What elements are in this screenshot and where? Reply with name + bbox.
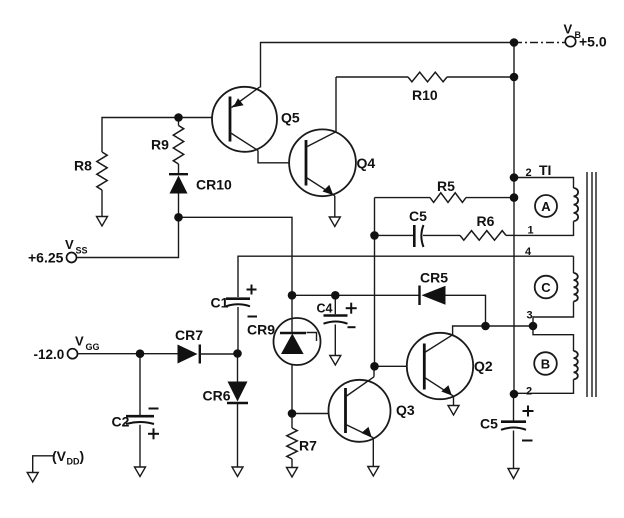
wire C2 bottom lead [139, 425, 141, 467]
wire Q2 emitter lead [453, 396, 455, 405]
svg-text:V: V [564, 22, 573, 37]
transistor Q3 (NPN) [329, 377, 391, 442]
svg-text:3: 3 [527, 310, 533, 322]
wire R10 left lead [336, 76, 408, 78]
wire left column x374 (R5 corner down through C5 node to Q2/Q3 node) [374, 198, 376, 367]
wire CR5 anode right then down to Q2 collector node [446, 295, 486, 326]
wire R8 bottom lead [101, 190, 103, 217]
node CR10/V_SS junction [174, 213, 183, 222]
svg-text:R8: R8 [74, 158, 92, 174]
wire node to R7 [291, 414, 293, 429]
svg-text:CR10: CR10 [196, 177, 232, 193]
svg-text:TI: TI [539, 162, 551, 178]
capacitor C5 (coupling, top) [414, 225, 423, 247]
svg-text:(V: (V [52, 448, 67, 464]
wire C4 top stub [334, 295, 336, 314]
resistor R10 [408, 72, 447, 82]
wire top net: Q5 emitter up and across to V_B bus node [261, 43, 515, 88]
wire R9 top lead [178, 118, 180, 126]
wire Q3 collector up to node [373, 366, 375, 377]
wire stub from bus node to V_B terminal (dash-dot) [514, 42, 566, 44]
wire winding C bottom to pin 3 node [533, 301, 574, 326]
node R5/bus junction [510, 193, 519, 202]
wire C5 left lead [375, 234, 414, 236]
svg-text:A: A [541, 199, 551, 214]
svg-text:+6.25: +6.25 [28, 250, 64, 266]
transistor Q4 (NPN) [289, 129, 356, 196]
svg-text:R9: R9 [151, 137, 169, 153]
wire winding A bottom to pin 1 [514, 221, 574, 235]
svg-text:C2: C2 [112, 414, 130, 430]
wire CR6 to ground [237, 403, 239, 467]
wire bus to C5 top plate [513, 394, 515, 421]
svg-text:C: C [541, 280, 551, 295]
wire C5 right lead to R6 [423, 234, 460, 236]
ground under C2 [135, 467, 146, 477]
wire Q4 collector up to R10 line [335, 77, 337, 132]
terminal V_GG [68, 349, 78, 359]
winding C coil [574, 273, 578, 301]
node R9/R8/Q5 base junction [174, 113, 183, 122]
svg-text:R6: R6 [477, 213, 495, 229]
svg-text:Q2: Q2 [474, 358, 493, 374]
node T1 pin2 top junction [510, 173, 519, 182]
winding B coil [574, 351, 578, 379]
diode CR7 (points right) [178, 345, 200, 364]
winding C label circle [535, 276, 558, 299]
plus sign C5 [523, 406, 534, 417]
wire winding C top from pin-4 line [573, 256, 575, 273]
node C2/V_GG junction [136, 349, 145, 358]
wire pin 2 to winding A top [514, 178, 574, 189]
svg-text:CR5: CR5 [420, 270, 448, 286]
plus sign C4 [346, 303, 357, 314]
svg-text:C5: C5 [409, 208, 427, 224]
diode CR10 (cathode bar up) [169, 174, 188, 193]
svg-text:CR9: CR9 [247, 322, 275, 338]
wire CR10 anode to node [178, 194, 180, 218]
wire winding B bottom to pin 2 node [514, 379, 574, 393]
wire Q4 emitter lead [334, 196, 336, 217]
svg-text:C4: C4 [317, 302, 333, 316]
svg-text:CR7: CR7 [175, 327, 203, 343]
ground under C4 [330, 356, 341, 366]
svg-text:C5: C5 [480, 416, 498, 432]
capacitor C1 [226, 299, 250, 307]
diode CR9 (circled, cathode bar up, with hook) [274, 318, 321, 365]
node R10/bus junction [510, 73, 519, 82]
svg-text:Q5: Q5 [281, 110, 300, 126]
wire node down to CR9 top [291, 295, 293, 318]
node C5/R5 left junction [370, 231, 379, 240]
wire Q3 base from CR9 node [292, 413, 329, 415]
capacitor C4 [324, 316, 348, 324]
wire V_DD stub [33, 456, 53, 473]
diode CR5 (points left) [420, 286, 446, 306]
wire R5 right lead to bus [466, 197, 514, 199]
transistor Q5 (PNP) [212, 87, 277, 152]
wire C2 top lead [139, 354, 141, 415]
wire node to pin 3 node [486, 325, 534, 327]
minus sign C5 [522, 440, 533, 442]
transformer core lines [587, 172, 596, 397]
wire pin 3 node to winding B top [533, 326, 574, 351]
wire R6 right lead to bus / pin 1 [506, 234, 514, 236]
node CR7/CR6/C1 junction [233, 349, 242, 358]
plus sign C1 [247, 285, 257, 295]
wire Q5 collector to Q4 base [258, 151, 289, 163]
svg-text:R7: R7 [299, 438, 317, 454]
capacitor C5 (output electrolytic) [501, 422, 526, 430]
wire Q3 emitter lead [372, 438, 374, 467]
node CR5/Q2 collector junction [481, 322, 490, 331]
resistor R6 [460, 231, 506, 241]
resistor R8 [97, 152, 107, 190]
wire V_GG to CR7 anode [78, 353, 178, 355]
node CR9/R7/Q3 base junction [288, 409, 297, 418]
ground under R8 [97, 217, 108, 227]
resistor R9 [173, 126, 183, 165]
winding A coil [574, 188, 579, 221]
svg-text:): ) [80, 448, 85, 464]
wire R8 top / Q5 base wire [102, 118, 213, 153]
svg-text:1: 1 [528, 225, 534, 237]
wire C4 bottom lead [334, 325, 336, 356]
svg-text:4: 4 [525, 246, 532, 258]
svg-text:2: 2 [526, 386, 532, 398]
node T1 pin2 bottom junction [510, 390, 519, 399]
svg-text:GG: GG [86, 342, 100, 352]
ground under C5 [508, 469, 519, 479]
terminal V_B [565, 36, 575, 46]
node Q3 collector/Q2 base junction [370, 362, 379, 371]
minus sign C2 [149, 408, 159, 410]
wire C5 bottom lead [513, 431, 515, 469]
wire C1 bottom to CR7/CR6 node [237, 307, 239, 354]
wire node down to CR6 [237, 354, 239, 382]
wire R7 to ground [291, 459, 293, 468]
ground under R7 [287, 468, 298, 478]
resistor R7 [287, 428, 297, 459]
winding A label circle [535, 195, 557, 217]
svg-text:B: B [541, 357, 550, 372]
wire R5 left lead from corner [375, 197, 431, 199]
wire V_SS terminal lead [77, 217, 179, 257]
ground under Q3 [368, 467, 379, 477]
node C4 junction [331, 291, 340, 300]
winding B label circle [534, 352, 557, 375]
ground under Q4 [329, 217, 340, 227]
node C1/CR9/V_SS junction [288, 291, 297, 300]
plus sign C2 [148, 428, 159, 439]
svg-text:Q4: Q4 [357, 155, 376, 171]
wire R9 to CR10 [178, 164, 180, 173]
wire node to corner, down to CR9 net node [179, 217, 293, 295]
svg-text:Q3: Q3 [396, 402, 415, 418]
svg-text:CR6: CR6 [203, 388, 231, 404]
svg-text:+5.0: +5.0 [579, 34, 607, 50]
wire R10 right lead to bus [447, 76, 514, 78]
svg-text:V: V [65, 237, 74, 252]
svg-text:R5: R5 [437, 178, 455, 194]
wire CR9 bottom to node [291, 365, 293, 414]
resistor R5 [430, 193, 466, 203]
svg-text:DD: DD [67, 457, 80, 467]
ground under Q2 [448, 406, 459, 416]
wire Q2 collector up and right to CR5 node [453, 326, 486, 335]
minus sign C4 [348, 326, 356, 328]
capacitor C2 [126, 416, 154, 424]
wire C1 top to pin-4 line across to winding C [238, 256, 574, 297]
svg-text:-12.0: -12.0 [34, 347, 65, 362]
diode CR6 (points down) [227, 382, 248, 404]
node V_B bus top [510, 38, 519, 47]
node T1 pin3 junction [529, 322, 538, 331]
ground under CR6 [232, 467, 243, 477]
transistor Q2 (NPN) [407, 333, 473, 399]
ground under V_DD stub [27, 473, 38, 483]
svg-text:R10: R10 [412, 87, 438, 103]
minus sign C1 [248, 316, 258, 318]
wire CR7 cathode to node [200, 353, 238, 355]
wire CR9 node across to CR5 cathode [292, 294, 419, 296]
svg-text:V: V [75, 334, 84, 349]
wire main V_B bus (right vertical) [513, 43, 515, 395]
terminal V_SS [67, 253, 77, 263]
svg-text:C1: C1 [211, 295, 229, 311]
wire Q2 base from node [375, 365, 408, 367]
svg-text:SS: SS [76, 246, 88, 256]
